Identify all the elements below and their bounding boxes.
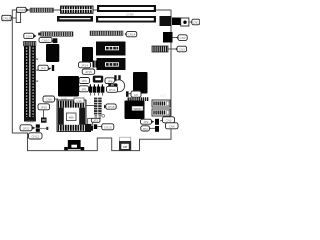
svg-text:CN12: CN12	[31, 135, 39, 139]
svg-text:CN4: CN4	[26, 34, 32, 38]
svg-text:U15: U15	[61, 97, 67, 101]
svg-text:JP10: JP10	[109, 88, 116, 92]
svg-text:JP22: JP22	[23, 127, 30, 131]
svg-text:JP1: JP1	[93, 119, 98, 123]
svg-text:CN8: CN8	[46, 98, 52, 102]
svg-text:CN1: CN1	[193, 20, 199, 24]
svg-text:JP2: JP2	[143, 120, 149, 124]
svg-text:JP5: JP5	[41, 66, 47, 70]
svg-text:JP18: JP18	[108, 105, 115, 109]
svg-text:U17: U17	[160, 94, 166, 98]
svg-text:CN39: CN39	[126, 13, 134, 17]
svg-text:CN10: CN10	[42, 38, 50, 42]
svg-text:JP15: JP15	[85, 70, 92, 74]
svg-text:CN16: CN16	[17, 8, 25, 12]
svg-text:CN3: CN3	[179, 47, 185, 51]
svg-text:CN15: CN15	[3, 16, 11, 20]
svg-text:W83C: W83C	[133, 107, 142, 111]
svg-text:JP14: JP14	[81, 64, 88, 68]
svg-text:JP20: JP20	[40, 106, 47, 110]
svg-text:CN5: CN5	[165, 119, 171, 123]
svg-text:JP3: JP3	[143, 127, 149, 131]
svg-text:CN14: CN14	[128, 33, 136, 37]
svg-text:JP9: JP9	[81, 88, 87, 92]
svg-text:U16: U16	[76, 99, 82, 103]
svg-text:JP23: JP23	[27, 120, 34, 124]
svg-text:KB: KB	[123, 145, 127, 149]
svg-text:486: 486	[69, 115, 74, 119]
svg-text:JP6: JP6	[82, 79, 88, 83]
svg-text:JP8: JP8	[107, 79, 113, 83]
svg-text:U6: U6	[134, 93, 138, 97]
svg-text:CN2: CN2	[180, 36, 186, 40]
svg-text:CN13: CN13	[104, 126, 112, 130]
svg-text:CN6: CN6	[169, 125, 175, 129]
